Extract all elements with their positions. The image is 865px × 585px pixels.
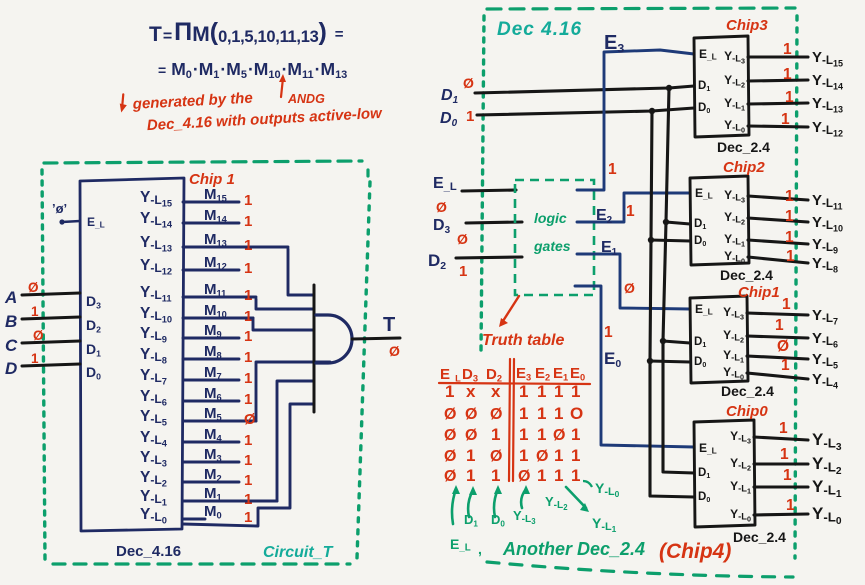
svg-text:Ø: Ø [444, 427, 456, 444]
svg-text:D: D [5, 359, 17, 378]
svg-text:1: 1 [31, 304, 39, 319]
pin Y_L14 of U1 with minterm wire M14 [140, 207, 252, 230]
svg-text:1: 1 [554, 404, 563, 423]
svg-text:,: , [478, 541, 482, 557]
pin Y_L11 of U1 with minterm wire M11 [140, 281, 256, 304]
svg-text:1: 1 [785, 208, 794, 225]
svg-text:1: 1 [783, 41, 792, 58]
svg-text:1: 1 [783, 467, 792, 484]
svg-text:Chip3: Chip3 [726, 17, 768, 34]
svg-text:1: 1 [244, 237, 252, 254]
pin Y_L3 of U1 with minterm wire M3 [140, 446, 252, 469]
svg-text:1: 1 [785, 229, 794, 246]
circuit boundary box Dec 4:16 (green dashed) [481, 8, 797, 577]
output wire Y_L9 of Chip2 [748, 229, 838, 256]
svg-text:1: 1 [783, 66, 792, 83]
output wire Y_L5 of Chip1 [747, 338, 838, 371]
wire M10 to AND gate input 3 [253, 318, 314, 330]
input D0 wire to bus [440, 108, 694, 129]
svg-text:gates: gates [533, 238, 571, 254]
svg-text:1: 1 [491, 466, 500, 485]
truth table row 5 [444, 466, 580, 485]
output T wire [352, 338, 400, 339]
input D3 wire to logic gates [433, 217, 522, 247]
wire M5 to AND gate input 4 [256, 362, 330, 421]
truth table row 3 [444, 425, 580, 444]
svg-text:ANDG: ANDG [287, 92, 325, 106]
svg-text:1: 1 [537, 404, 546, 423]
svg-text:1: 1 [781, 111, 790, 128]
output wire Y_L12 of Chip3 [748, 111, 843, 139]
svg-text:1: 1 [519, 382, 528, 401]
svg-text:1: 1 [459, 263, 467, 280]
pin Y_L10 of U1 with minterm wire M10 [140, 302, 253, 325]
input D1 wire to bus [441, 75, 694, 106]
net E0: logic gates to Chip0 E_L [575, 286, 694, 447]
svg-text:Ø: Ø [28, 280, 39, 295]
label Chip1 [738, 284, 780, 301]
svg-text:Ø: Ø [444, 448, 456, 465]
decoder U1 Dec 4:16 body [80, 178, 184, 531]
svg-text:Ø: Ø [490, 448, 502, 465]
bus D0 vertical with junctions [647, 108, 694, 497]
input D wire to pin D0 [5, 351, 101, 382]
svg-text:1: 1 [244, 452, 252, 469]
svg-text:1: 1 [244, 260, 252, 277]
svg-text:Dec_2.4: Dec_2.4 [717, 139, 770, 155]
output wire Y_L1 of Chip0 [754, 467, 842, 500]
label T output [383, 314, 395, 336]
pin Y_L4 of U1 with minterm wire M4 [140, 426, 252, 449]
annotation labels E_L D1 D0 [450, 512, 505, 557]
output wire Y_L6 of Chip1 [747, 317, 838, 350]
wire M13 to AND gate input 1 [288, 249, 314, 295]
value 0 at output T [389, 343, 400, 359]
truth table row 1 [445, 382, 580, 401]
svg-text:Ø: Ø [777, 338, 789, 355]
svg-text:1: 1 [537, 382, 546, 401]
annotation arrow: ANDG [279, 74, 325, 106]
svg-text:1: 1 [779, 420, 788, 437]
svg-text:1: 1 [537, 425, 546, 444]
wire M11 to AND gate input 2 [256, 299, 314, 309]
wire M1 to AND gate input 5 [277, 381, 314, 501]
output wire Y_L4 of Chip1 [747, 357, 838, 391]
svg-text:1: 1 [244, 349, 252, 366]
pin Y_L7 of U1 with minterm wire M7 [140, 364, 252, 387]
svg-text:1: 1 [519, 425, 528, 444]
pin Y_L0 of U1 with minterm wire M0 [140, 503, 252, 526]
input B wire to pin D2 [5, 304, 101, 335]
svg-text:1: 1 [244, 192, 252, 209]
svg-text:1: 1 [244, 308, 252, 325]
svg-text:1: 1 [519, 404, 528, 423]
net E2: logic gates to Chip2 E_L [577, 193, 690, 226]
svg-text:Ø: Ø [518, 468, 530, 485]
svg-text:1: 1 [244, 432, 252, 449]
svg-text:1: 1 [244, 472, 252, 489]
svg-text:1: 1 [519, 446, 528, 465]
svg-text:1: 1 [786, 497, 795, 514]
pin Y_L9 of U1 with minterm wire M9 [140, 322, 252, 345]
pin Y_L8 of U1 with minterm wire M8 [140, 343, 252, 366]
equation line 2: = M0.M1.M5.M10.M11.M13 [158, 59, 347, 81]
svg-text:1: 1 [554, 446, 563, 465]
svg-text:1: 1 [780, 446, 789, 463]
svg-text:Ø: Ø [624, 280, 635, 296]
decoder Chip0 (Dec 2:4) body [694, 420, 755, 527]
output wire Y_L2 of Chip0 [754, 446, 842, 477]
label Another Dec_2:4 (Chip4) [502, 539, 731, 563]
svg-text:A: A [4, 288, 17, 307]
pin labels of Chip0 [698, 429, 751, 524]
input A wire to pin D3 [4, 280, 101, 311]
decoder Chip1 (Dec 2:4) body [690, 296, 748, 383]
svg-text:1: 1 [244, 213, 252, 230]
svg-text:1: 1 [466, 466, 475, 485]
svg-text:1: 1 [445, 382, 454, 401]
svg-text:Chip1: Chip1 [738, 284, 780, 301]
output wire Y_L8 of Chip2 [748, 248, 838, 275]
svg-text:1: 1 [782, 296, 791, 313]
svg-text:Dec 4.16: Dec 4.16 [497, 19, 582, 40]
bus D1 vertical with junctions [660, 85, 694, 473]
svg-text:Truth table: Truth table [482, 332, 564, 349]
svg-text:Circuit_T: Circuit_T [263, 544, 334, 561]
label Circuit_T [263, 544, 334, 561]
svg-text:1: 1 [31, 351, 39, 366]
wire M0 to AND gate input 6 [183, 404, 314, 526]
svg-text:1: 1 [781, 357, 790, 374]
svg-text:1: 1 [608, 161, 617, 178]
svg-text:Ø: Ø [490, 406, 502, 423]
svg-text:C: C [5, 336, 18, 355]
svg-text:Chip0: Chip0 [726, 403, 768, 420]
label Truth table with arrow [482, 296, 564, 349]
svg-text:Ø: Ø [457, 231, 468, 247]
label Chip3 [726, 17, 768, 34]
svg-text:Ø: Ø [465, 427, 477, 444]
svg-text:1: 1 [571, 425, 580, 444]
circuit boundary box Circuit_T (green dashed) [42, 161, 370, 564]
svg-text:Dec_2.4: Dec_2.4 [721, 383, 774, 399]
svg-text:1: 1 [466, 108, 474, 125]
annotation: generated by the Dec 4:16 with outputs active-low [119, 81, 383, 136]
svg-text:Dec_2.4: Dec_2.4 [720, 267, 773, 283]
svg-text:1: 1 [244, 328, 252, 345]
svg-text:1: 1 [604, 324, 613, 341]
svg-text:Ø: Ø [444, 468, 456, 485]
net E1: logic gates to Chip1 E_L [577, 239, 690, 309]
svg-text:Ø: Ø [465, 406, 477, 423]
input D2 wire to logic gates [428, 251, 522, 280]
pin Y_L1 of U1 with minterm wire M1 [140, 485, 277, 508]
svg-text:1: 1 [244, 287, 252, 304]
label Dec_4:16 under chip [116, 543, 181, 560]
truth table row 4 [444, 446, 580, 465]
svg-text:1: 1 [244, 509, 252, 526]
svg-text:1: 1 [571, 382, 580, 401]
input C wire to pin D1 [5, 328, 101, 359]
output wire Y_L15 of Chip3 [748, 41, 843, 69]
svg-text:Dec_4.16: Dec_4.16 [116, 543, 181, 560]
pin Y_L2 of U1 with minterm wire M2 [140, 466, 252, 489]
label Dec_2:4 under Chip1 [721, 383, 774, 399]
output wire Y_L14 of Chip3 [748, 66, 843, 92]
annotation arrows: column meanings [452, 485, 530, 524]
pin Y_L6 of U1 with minterm wire M6 [140, 385, 252, 408]
svg-text:Ø: Ø [244, 411, 256, 428]
svg-text:1: 1 [244, 391, 252, 408]
svg-text:1: 1 [786, 248, 795, 265]
AND gate G1 body [316, 315, 352, 363]
svg-text:Dec_2.4: Dec_2.4 [733, 529, 786, 545]
svg-text:1: 1 [626, 203, 635, 220]
svg-text:x: x [491, 382, 501, 401]
pin Y_L15 of U1 with minterm wire M15 [140, 186, 252, 209]
svg-text:(Chip4): (Chip4) [659, 540, 731, 563]
output wire Y_L0 of Chip0 [754, 497, 842, 527]
label Chip0 [726, 403, 768, 420]
svg-text:Ø: Ø [33, 328, 44, 343]
equation line 1: T = PROD M(0,1,5,10,11,13) [149, 18, 344, 46]
truth table header [440, 365, 585, 384]
svg-text:1: 1 [785, 89, 794, 106]
input E_L wire to logic gates [433, 175, 516, 215]
svg-text:1: 1 [571, 466, 580, 485]
pin Y_L5 of U1 with minterm wire M5 [140, 405, 256, 428]
label logic gates [533, 210, 571, 254]
truth table rules [439, 359, 590, 481]
svg-text:1: 1 [244, 370, 252, 387]
svg-text:1: 1 [571, 446, 580, 465]
svg-text:Ø: Ø [463, 75, 474, 91]
svg-text:Ø: Ø [436, 199, 447, 215]
svg-text:1: 1 [537, 466, 546, 485]
annotation labels Y_L3 Y_L2 Y_L1 Y_L0 [513, 480, 620, 534]
net E3: logic gates to Chip3 E_L [577, 32, 694, 190]
pin Y_L12 of U1 with minterm wire M12 [140, 254, 252, 277]
decoder Chip3 (Dec 2:4) body [694, 36, 749, 137]
pin Y_L13 of U1 with minterm wire M13 [140, 231, 288, 254]
svg-text:1: 1 [244, 491, 252, 508]
svg-text:T: T [383, 314, 395, 336]
output wire Y_L13 of Chip3 [748, 89, 843, 115]
svg-text:1: 1 [491, 425, 500, 444]
output wire Y_L7 of Chip1 [747, 296, 838, 327]
decoder Chip2 (Dec 2:4) body [690, 176, 749, 265]
svg-text:1: 1 [466, 446, 475, 465]
pin labels of Chip3 [698, 47, 745, 135]
pin labels of Chip2 [694, 186, 745, 266]
label Dec_2:4 under Chip2 [720, 267, 773, 283]
svg-text:logic: logic [534, 210, 567, 226]
svg-text:1: 1 [554, 382, 563, 401]
svg-text:Another Dec_2.4: Another Dec_2.4 [502, 539, 645, 559]
pin labels of Chip1 [694, 302, 744, 382]
logic gates block (green dashed) [515, 180, 594, 295]
label Chip2 [723, 159, 765, 176]
svg-text:B: B [5, 312, 17, 331]
AND gate G1 input bus edge [313, 285, 316, 412]
pin E_L of U1 with wire and node [52, 201, 105, 229]
svg-text:1: 1 [554, 466, 563, 485]
output wire Y_L10 of Chip2 [748, 208, 843, 234]
svg-text:O: O [570, 404, 583, 423]
svg-text:1: 1 [775, 317, 784, 334]
label Dec 4:16 (teal) [497, 19, 582, 40]
svg-text:x: x [466, 382, 476, 401]
truth table row 2 [444, 404, 583, 423]
svg-text:Ø: Ø [389, 343, 400, 359]
svg-text:Ø: Ø [444, 406, 456, 423]
svg-text:’ø’: ’ø’ [52, 201, 67, 216]
svg-text:Chip2: Chip2 [723, 159, 765, 176]
output wire Y_L3 of Chip0 [754, 420, 842, 453]
svg-text:Ø: Ø [536, 448, 548, 465]
label Dec_2:4 under Chip0 [733, 529, 786, 545]
label Dec_2:4 under Chip3 [717, 139, 770, 155]
svg-text:Ø: Ø [553, 427, 565, 444]
label Chip1 (left) [189, 171, 235, 188]
svg-text:1: 1 [785, 188, 794, 205]
output wire Y_L11 of Chip2 [748, 188, 843, 212]
